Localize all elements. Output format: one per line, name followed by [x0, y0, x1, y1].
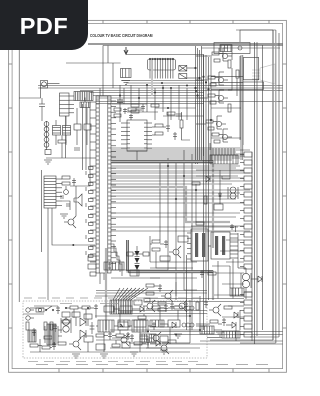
wire bus drop d8	[170, 88, 172, 120]
capacitor C410	[170, 302, 174, 310]
filter sub-block Z101b	[80, 102, 90, 108]
wire right band r4	[210, 57, 212, 160]
capacitor C203	[141, 104, 145, 112]
resistor R204	[114, 114, 121, 117]
wire trunk R1	[240, 55, 242, 160]
small box row 4	[168, 320, 180, 327]
wire conn stub s4	[216, 272, 244, 274]
junction dot jf3	[175, 198, 176, 199]
IC U401 vertical out	[191, 229, 208, 261]
wire conn stub s5	[222, 283, 244, 285]
ground G404	[174, 334, 182, 338]
wire stage link h2	[211, 81, 243, 83]
wire psu h3	[96, 325, 98, 327]
wire brl h1	[196, 323, 210, 325]
wire u202 link3	[152, 134, 155, 136]
wire R117 top	[86, 108, 88, 124]
wire band stub1	[55, 135, 57, 145]
resistor R415	[140, 336, 148, 339]
diode D431	[232, 322, 236, 328]
wire pb h2	[50, 347, 52, 349]
junction dot T1a	[195, 87, 197, 89]
wire psu top h	[30, 307, 44, 309]
vertical bus wire VB6	[278, 33, 280, 337]
signal wire fx9	[111, 192, 240, 194]
wire left margin top	[103, 45, 196, 47]
inductor L501	[182, 323, 194, 327]
resistor R201	[131, 104, 139, 107]
wire RF down2	[41, 98, 43, 104]
junction dot t1	[119, 95, 120, 96]
resistor R231	[155, 132, 163, 135]
wire TC right2	[192, 77, 200, 79]
small box psu3	[62, 312, 70, 317]
wire flyback feed	[238, 267, 246, 269]
capacitor C504	[152, 322, 156, 330]
wire U201 foot drop	[99, 273, 101, 284]
resistor R513	[174, 306, 182, 309]
wire u202 link1	[152, 126, 155, 128]
wire pair mid a	[96, 290, 207, 292]
connector CN202	[210, 148, 238, 164]
wire left bus drop 3	[89, 102, 91, 161]
wire left bus drop 2	[85, 104, 87, 170]
wire conn stub s7	[228, 305, 244, 307]
resistor R311	[146, 292, 154, 295]
signal wire fx6	[111, 170, 244, 172]
wire band top1	[55, 120, 57, 126]
trace H1 edge a	[111, 159, 213, 161]
wire right band r1	[203, 55, 205, 330]
speaker LS301	[74, 194, 82, 206]
resistor R411	[158, 308, 166, 311]
junction dot TC2	[199, 77, 201, 79]
capacitor C121	[117, 100, 123, 102]
wire audio down	[47, 208, 49, 300]
wire psu v1	[39, 339, 41, 352]
wire psu mid v1	[73, 309, 75, 318]
wire stages right drop	[239, 56, 241, 140]
wire pair mid b	[96, 292, 207, 294]
capacitor C503	[53, 324, 57, 332]
wire audio link	[62, 201, 70, 210]
capacitor C412	[130, 334, 134, 342]
pin resistor column U201	[89, 167, 94, 258]
wire pb v2	[115, 340, 117, 344]
wire top link h1	[112, 103, 147, 105]
wire trunk T1	[195, 46, 197, 164]
wire conn stub s3	[226, 261, 244, 263]
capacitor C431	[222, 318, 226, 326]
trimmer TC102	[179, 74, 192, 79]
wire psu out	[196, 325, 207, 327]
wire VB bottom elbow2	[240, 342, 276, 344]
resistor R202	[131, 110, 139, 113]
transistor Q406	[209, 304, 221, 316]
capacitor C106	[39, 104, 45, 112]
wire br h4	[150, 267, 193, 269]
ground G504	[130, 352, 138, 356]
transistor Q502	[117, 334, 129, 346]
wire VB top elbow2	[236, 29, 276, 31]
wire psu mid v4	[159, 308, 161, 324]
junction dot rb4	[210, 119, 212, 121]
resistor R519	[116, 334, 124, 337]
wire C111 down	[119, 103, 121, 123]
wire psu top h6	[132, 308, 140, 310]
wire bottom mid h2	[95, 315, 190, 317]
resistor R504	[44, 336, 52, 339]
trace H5 edge a	[126, 240, 213, 270]
resistor R412	[196, 302, 199, 310]
block M401	[104, 262, 124, 270]
wire mid right h1	[196, 169, 244, 171]
wire top link h2	[155, 107, 196, 109]
wire pair low a	[150, 331, 283, 333]
diode D201	[206, 176, 210, 182]
resistor R431	[210, 320, 218, 323]
power supply section outline	[23, 301, 207, 358]
bus wire B7 upper right	[202, 47, 281, 49]
staircase wire st1	[111, 244, 120, 272]
wire audio feed	[70, 160, 90, 186]
pin cap marks U201	[85, 171, 87, 255]
wire ant to IC	[126, 54, 148, 56]
wire stage link h3	[211, 88, 243, 90]
resistor R215	[228, 60, 231, 68]
vertical grid wire V4	[191, 154, 193, 330]
signal wire fx4	[111, 159, 232, 161]
IC U503 standby	[132, 320, 148, 332]
wire left mid v	[61, 135, 63, 140]
wire psu h2	[23, 313, 44, 315]
resistor R511	[82, 306, 90, 309]
video amp Q205	[212, 129, 232, 143]
signal wire fx1	[111, 147, 240, 149]
wire psu h1	[34, 305, 58, 307]
wire psu h11	[124, 335, 126, 337]
wire U201 foot drop2	[103, 273, 105, 280]
wire psu top h2	[66, 307, 70, 309]
wire bus drop d9	[178, 85, 180, 120]
capacitor C422	[200, 270, 204, 278]
resistor R422	[152, 248, 160, 251]
optocoupler U502	[118, 322, 128, 330]
transistor Q408	[149, 332, 161, 344]
resistor R502	[50, 322, 53, 330]
video amp Q204	[206, 116, 226, 130]
wire psu low h2	[129, 342, 134, 344]
capacitor C513	[146, 338, 150, 346]
wire conn rail	[251, 152, 253, 330]
bus wire B5d	[96, 103, 204, 105]
switch SW501	[45, 306, 54, 311]
junction dot audio	[73, 244, 74, 245]
wire bus drop d10	[186, 88, 188, 120]
wire RF to IF	[48, 83, 60, 85]
resistor R121	[151, 104, 159, 107]
capacitor C303	[60, 196, 64, 198]
junction dot jf1	[167, 165, 168, 166]
CRT V1 electron gun	[252, 64, 275, 84]
signal wire fx5	[111, 165, 240, 167]
transformer T201	[228, 187, 238, 199]
mains input plug	[26, 308, 34, 320]
wire conn stub s1	[226, 239, 244, 241]
wire br h3	[150, 261, 197, 263]
wire stage link top	[218, 48, 220, 52]
wire top link h3	[163, 115, 204, 117]
wire right band r2	[205, 55, 207, 300]
wire conn stub s2	[220, 250, 244, 252]
trace H1 edge b	[111, 162, 213, 164]
connector CN404	[222, 331, 240, 338]
resistor R122	[167, 112, 175, 115]
wire VB bottom elbow	[210, 339, 273, 341]
wire loop box R1	[243, 58, 258, 80]
wire bus drop d7	[162, 85, 164, 112]
wire band stub2	[65, 135, 67, 145]
wire bottom mid h1	[95, 295, 136, 297]
wire stage feed	[196, 55, 212, 57]
ground G301	[60, 214, 68, 218]
wire defl h4	[212, 266, 230, 288]
wire stage link h1	[211, 76, 243, 78]
sub-board connector CN501	[140, 334, 156, 342]
wire u202 v1	[167, 112, 169, 124]
transformer T501	[61, 318, 71, 333]
diode D402	[234, 312, 238, 318]
bus wire B5	[93, 95, 204, 97]
small box row 2	[134, 320, 146, 327]
vertical bus wire VB5	[275, 30, 277, 343]
resistor R230	[155, 124, 163, 127]
signal wire fx14	[111, 226, 238, 228]
wire trunk T4	[201, 46, 203, 160]
wire Z101b link	[84, 98, 86, 103]
ground G503	[160, 350, 168, 354]
connector CN201 pin header	[240, 152, 252, 337]
capacitor C515	[126, 332, 130, 340]
wire bm h1	[134, 343, 149, 345]
junction dot t4	[170, 87, 171, 88]
connector CN403	[200, 326, 214, 334]
signal wire fx12	[111, 212, 240, 214]
coil L502	[186, 306, 194, 310]
wire psu h4	[114, 325, 118, 327]
wire bottom mid h3	[110, 329, 200, 331]
wire flyback right	[251, 278, 258, 280]
wire mid right drop	[229, 164, 231, 176]
junction dot pb1	[147, 331, 148, 332]
small box pb4	[160, 336, 168, 342]
resistor R232	[180, 120, 183, 128]
wire CN202 riser	[209, 143, 211, 150]
capacitor C302	[64, 186, 69, 194]
wire tuner tail	[65, 116, 67, 158]
small box pb3	[122, 342, 130, 348]
wire bus drop d3	[130, 85, 132, 104]
wire trunk T2	[197, 48, 199, 164]
resistor R421	[152, 240, 160, 243]
capacitor C301	[72, 178, 76, 186]
wire TC right	[192, 67, 196, 69]
wire rail drop b	[107, 46, 109, 64]
diode D510	[140, 306, 144, 312]
highlighted trace H3	[151, 60, 153, 96]
heatsink block HS501	[28, 330, 36, 342]
wire bm v3	[177, 310, 179, 320]
vertical bus wire VB2	[256, 42, 258, 336]
wire bottom right elbow	[251, 330, 253, 341]
bus wire B5b	[96, 97, 204, 99]
highlighted trace H1	[111, 162, 213, 249]
signal wire fx7	[111, 175, 238, 177]
transistor Q301	[64, 216, 76, 228]
wire psu h9	[104, 335, 108, 337]
capacitor C122	[136, 108, 142, 110]
wire U201 top link2	[99, 88, 101, 96]
capacitor C205	[129, 114, 133, 120]
wire psu h7	[58, 329, 62, 331]
ground G101	[44, 160, 52, 164]
wire psu v5	[95, 312, 97, 318]
wire psu low h	[96, 339, 117, 341]
small box psu1	[104, 306, 114, 312]
diode chain D301-D303	[135, 246, 140, 276]
bandpass block L102	[53, 126, 61, 136]
capacitor C510	[94, 304, 98, 312]
IC U201 jungle processor	[96, 96, 111, 273]
IC U101 IF amplifier	[148, 58, 176, 70]
small box psu2	[120, 306, 132, 312]
wire defl v5	[232, 259, 234, 299]
wire U202 drop	[136, 151, 138, 160]
wire rail drop a	[102, 46, 104, 86]
pins of U101	[150, 70, 173, 79]
resistor R222	[204, 196, 207, 204]
small box mr1	[214, 204, 223, 210]
wire psu top h9	[168, 307, 174, 309]
wire psu top h7	[146, 308, 152, 310]
bridge diode D501	[80, 318, 86, 326]
resistor R401	[196, 222, 204, 225]
wire sync h	[111, 277, 160, 279]
tuner IC U102	[60, 93, 70, 116]
resistor R108	[45, 150, 51, 155]
wire defl h3	[111, 269, 168, 271]
trace H5 edge b	[129, 240, 213, 273]
wire bm v1	[143, 314, 145, 316]
regulator IC U501	[98, 320, 114, 332]
wire band top2	[65, 116, 67, 126]
staircase wire st2	[111, 248, 122, 276]
junction dot jd3	[195, 90, 196, 91]
wire trunk T5	[203, 55, 205, 157]
capacitor C230	[166, 124, 170, 132]
resistor R518	[96, 334, 104, 337]
wire left mid h	[46, 157, 90, 159]
video amp Q202 (G)	[208, 72, 228, 86]
node junction J1	[161, 82, 162, 83]
small box psu5	[84, 314, 92, 319]
IC U202 video chroma	[127, 120, 147, 151]
wire audio down2	[52, 208, 95, 245]
capacitor C511	[164, 304, 168, 312]
signal wire fx2	[111, 151, 236, 153]
SAW filter Z101	[74, 92, 93, 101]
junction dot mr2	[219, 195, 220, 196]
ground G502	[100, 354, 108, 358]
highlighted trace H4	[105, 248, 107, 330]
wire stage feed2	[196, 79, 208, 81]
resistor R501	[44, 322, 47, 330]
capacitor C502	[90, 322, 95, 334]
resistor R112b	[128, 108, 136, 111]
wire left bus drop	[82, 104, 84, 170]
vertical grid wire V5	[159, 163, 161, 240]
wire brl v2	[235, 328, 237, 341]
signal wire fx10	[111, 198, 236, 200]
capacitor C304	[66, 204, 70, 206]
wire bottom mid v1	[189, 300, 191, 330]
wire bus drop d6	[154, 88, 156, 112]
wire bm h3	[110, 347, 200, 349]
resistor R517	[62, 320, 70, 323]
wire pair defl a	[145, 298, 244, 300]
wire left mid v2	[61, 143, 63, 158]
wire stage feed4	[196, 123, 206, 125]
junction dot u202a	[167, 107, 168, 108]
capacitor C231	[173, 132, 177, 140]
wire psu d3	[87, 319, 89, 326]
small box pb2	[96, 344, 105, 350]
wire psu top h5	[114, 308, 120, 310]
wire psu top h8	[160, 307, 164, 309]
junction dot mr1	[195, 189, 196, 190]
video amp Q201 (R)	[212, 48, 232, 62]
wire psu top h3	[78, 307, 82, 309]
wire RF down	[19, 88, 40, 99]
transistor Q404	[143, 300, 155, 312]
wire ant span	[148, 54, 205, 56]
transistor Q405	[175, 300, 187, 312]
small box br1	[160, 256, 170, 261]
wire VB bottom elbow3	[250, 336, 279, 338]
small box psu4	[72, 312, 80, 317]
signal wire fx3	[111, 155, 244, 157]
label marks psu bottom	[28, 361, 198, 363]
junction dot jf2	[183, 175, 184, 176]
wire R116 drop	[76, 130, 78, 145]
capacitor C514	[108, 332, 112, 340]
wire brl v1	[239, 310, 241, 330]
resistor R413	[224, 306, 232, 309]
wire bottom right h2	[150, 343, 283, 345]
pins U402 right	[230, 233, 238, 260]
wire R117 drop	[86, 130, 88, 145]
wire flyback down	[245, 293, 247, 299]
wire stage link h4	[211, 107, 241, 109]
vertical grid wire V1	[167, 158, 169, 270]
diode D503	[172, 322, 176, 328]
resistor boxes at U201 foot	[88, 256, 96, 276]
wire conn stub s6	[214, 294, 244, 296]
wire psu v3	[139, 332, 141, 352]
capacitor C401	[230, 224, 234, 230]
wire U101 under2	[126, 82, 204, 84]
wire bottom mid v2	[199, 296, 201, 330]
